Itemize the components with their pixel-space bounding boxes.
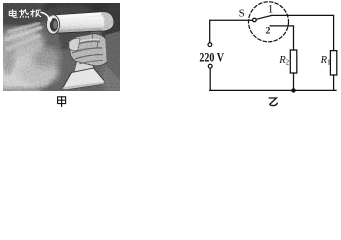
resistor R1 box (330, 51, 336, 75)
terminal circle bottom of source (208, 64, 212, 68)
photo background (3, 3, 120, 91)
photo of hair dryer, figure 甲 (0, 0, 137, 95)
terminal circle top of source (208, 43, 212, 47)
junction node dot (291, 88, 295, 92)
handle foot (63, 68, 105, 89)
wrist/arm right (105, 31, 120, 80)
wire: contact 2 to R2 branch (270, 26, 294, 50)
wire: top from source to switch pivot (210, 19, 253, 21)
svg-text:2: 2 (266, 26, 271, 37)
wire: left vertical upper (209, 20, 211, 42)
nozzle opening (46, 15, 59, 34)
label 乙 (269, 98, 278, 106)
wire: R1 to bottom (333, 75, 335, 90)
wire: R2 to bottom (293, 73, 295, 90)
label 电热板 (white handwritten) (9, 10, 41, 18)
handle column (74, 53, 97, 74)
wire: contact 1 to R1 branch (271, 15, 333, 50)
hand gripping handle (70, 34, 109, 66)
svg-text:220 V: 220 V (199, 50, 224, 64)
电 (12, 10, 14, 17)
svg-text:R2: R2 (278, 55, 289, 66)
svg-text:R1: R1 (320, 55, 331, 66)
light streaks (air blast) left of nozzle (8, 23, 40, 32)
wire: left vertical lower (209, 68, 211, 90)
svg-text:1: 1 (268, 4, 274, 16)
switch lever (thrown to contact 1) (256, 16, 271, 20)
resistor R2 box (290, 50, 297, 73)
grain overlay (3, 3, 120, 91)
热 (21, 10, 23, 15)
板 (32, 10, 34, 17)
shadow under barrel (58, 30, 92, 50)
label 甲 (58, 96, 66, 107)
fingers (71, 41, 100, 46)
wire: bottom (210, 89, 336, 91)
switch pivot contact (253, 18, 257, 22)
annotation arrow (41, 12, 50, 18)
thumb (69, 38, 80, 50)
dryer barrel (51, 12, 114, 34)
dashed circle around switch contacts (249, 2, 289, 42)
svg-text:S: S (239, 7, 245, 19)
